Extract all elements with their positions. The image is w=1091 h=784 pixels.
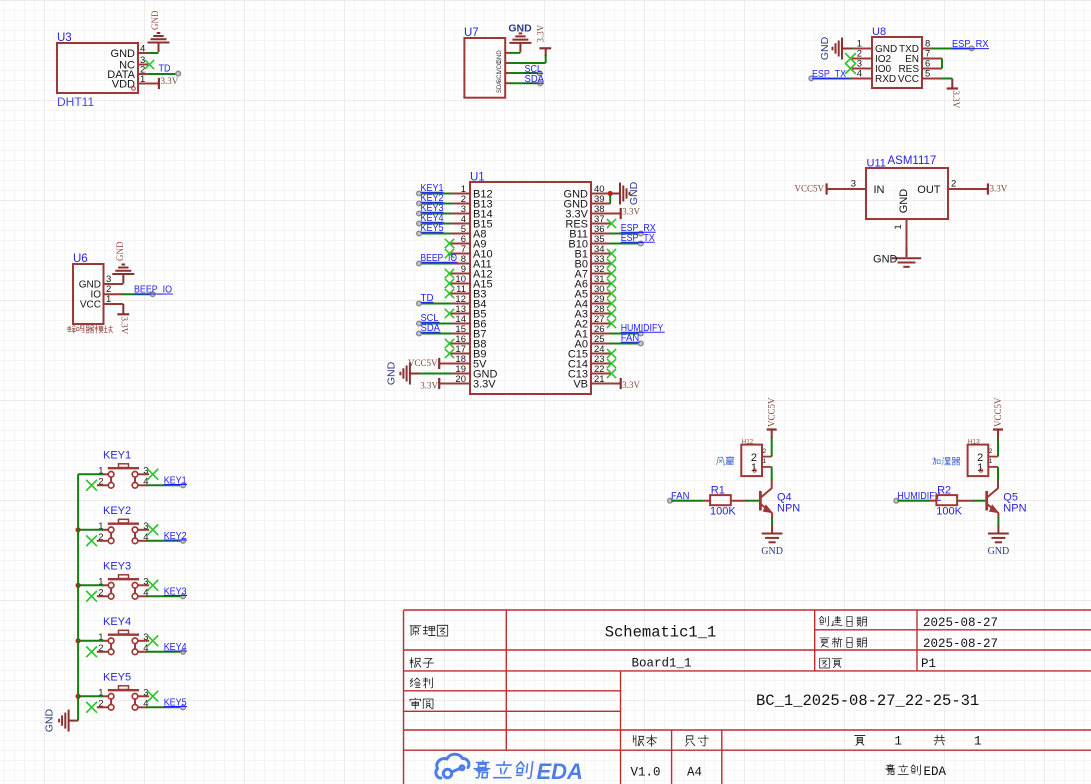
title: sheet type bbox=[410, 625, 448, 636]
U1 pin 6 stub bbox=[450, 243, 470, 245]
svg-text:GND: GND bbox=[898, 189, 910, 214]
wire KEY2 pin4 to label bbox=[147, 540, 182, 542]
switch KEY2 bbox=[97, 505, 149, 544]
U1 pin 24 stub bbox=[591, 353, 611, 355]
switch KEY3 bbox=[97, 560, 149, 599]
svg-text:IN: IN bbox=[874, 184, 885, 196]
U1 pin 23 stub bbox=[591, 363, 611, 365]
wire Q5 emitter to ground bbox=[997, 513, 999, 518]
net port KEY2 bbox=[417, 201, 422, 206]
net label TD bbox=[421, 293, 434, 304]
svg-text:OUT: OUT bbox=[917, 184, 941, 196]
wire U3 pin4 to GND bbox=[147, 52, 159, 54]
no-connect U1 pin 10 bbox=[445, 279, 454, 288]
U3 pin 3 stub bbox=[138, 64, 148, 66]
svg-text:GND: GND bbox=[150, 10, 160, 30]
U1 pin 30 stub bbox=[591, 293, 611, 295]
svg-text:3.3V: 3.3V bbox=[951, 91, 961, 109]
ground flag at U8 pin 1 (rotated left) bbox=[819, 36, 852, 60]
svg-text:3.3V: 3.3V bbox=[622, 380, 640, 390]
wire U3 DATA to TD bbox=[148, 73, 176, 75]
svg-text:RXD: RXD bbox=[875, 74, 896, 85]
U1 pin 28 stub bbox=[591, 313, 611, 315]
svg-text:EDA: EDA bbox=[537, 759, 583, 784]
wire U1 pin 12 to TD bbox=[421, 303, 451, 305]
no-connect U1 pin 27 bbox=[607, 319, 616, 328]
net label ESP_TX bbox=[812, 69, 849, 80]
power flag 3.3V at U1 pin 38 bbox=[610, 207, 641, 220]
title: drawn label bbox=[410, 678, 432, 688]
wire U1 pin 36 to ESP_RX bbox=[610, 233, 640, 235]
U11 pin 1 stub bbox=[906, 219, 908, 248]
logo JLCEDA cloud bbox=[436, 754, 469, 778]
wire U1 pin 3 to KEY3 bbox=[421, 213, 451, 215]
wire Q5 collector to H13 pin 1 bbox=[997, 480, 999, 489]
ground flag at key bus (rotated left) bbox=[44, 709, 79, 733]
net port KEY4 bbox=[417, 221, 422, 226]
U1 pin 21 stub bbox=[591, 383, 611, 385]
svg-text:U8: U8 bbox=[872, 26, 886, 38]
net label KEY4 bbox=[164, 642, 187, 653]
transistor Q4 NPN bbox=[760, 488, 800, 514]
junction key bus 2 bbox=[76, 527, 81, 532]
ground flag at U1 pin 40 (rotated right) bbox=[611, 181, 641, 205]
power flag VCC5V above H12 bbox=[767, 397, 777, 430]
wire KEY1 pin4 to label bbox=[147, 484, 182, 486]
U1 pin 17 stub bbox=[450, 353, 470, 355]
net port KEY5 bbox=[417, 231, 422, 236]
logo JLCEDA text bbox=[473, 761, 533, 778]
U1 pin 33 stub bbox=[591, 263, 611, 265]
svg-text:GND: GND bbox=[628, 181, 640, 205]
title: created date label bbox=[819, 616, 866, 626]
net label FAN bbox=[671, 491, 690, 502]
U11 pin 2 stub bbox=[948, 188, 988, 190]
svg-text:GND: GND bbox=[508, 23, 532, 35]
junction key bus 3 bbox=[76, 583, 81, 588]
svg-text:3.3V: 3.3V bbox=[536, 24, 546, 42]
no-connect U1 pin 9 bbox=[445, 269, 454, 278]
module U8 ESP8266 serial bbox=[857, 26, 931, 88]
no-connect U1 pin 23 bbox=[607, 359, 616, 368]
svg-text:3.3V: 3.3V bbox=[420, 381, 438, 391]
net port FAN bbox=[668, 498, 673, 503]
no-connect U3 pin 3 bbox=[145, 60, 154, 69]
wire U8 RXD to ESP_TX bbox=[814, 78, 853, 80]
sensor U3 DHT11 bbox=[57, 32, 145, 109]
junction key bus 5 bbox=[76, 694, 81, 699]
svg-text:3: 3 bbox=[851, 179, 856, 190]
U1 pin 14 stub bbox=[450, 323, 470, 325]
net label KEY2 bbox=[164, 531, 187, 542]
U7 pin 4 stub bbox=[505, 82, 510, 84]
wire H12 pin 2 to VCC5V bbox=[771, 438, 773, 457]
ground flag at U6 pin 3 bbox=[112, 241, 134, 283]
no-connect U1 pin 28 bbox=[607, 309, 616, 318]
title: company bbox=[886, 764, 921, 775]
U1 pin 31 stub bbox=[591, 283, 611, 285]
svg-text:Board1_1: Board1_1 bbox=[631, 657, 691, 671]
svg-text:NPN: NPN bbox=[777, 503, 800, 515]
wire key bus vertical bbox=[77, 474, 79, 720]
title: page 1 of 1 bbox=[855, 736, 865, 746]
svg-text:GND: GND bbox=[873, 254, 898, 266]
net port KEY2 bbox=[181, 538, 186, 543]
ground flag below Q4 bbox=[761, 533, 783, 557]
wire R2 to Q5 base bbox=[973, 500, 986, 502]
svg-text:DHT11: DHT11 bbox=[57, 95, 94, 109]
svg-text:GND: GND bbox=[761, 546, 783, 557]
U1 pin 19 stub bbox=[450, 373, 470, 375]
ground flag below Q5 bbox=[988, 533, 1010, 557]
svg-text:3.3V: 3.3V bbox=[473, 379, 496, 391]
power flag 3.3V at U3 VDD bbox=[159, 76, 179, 89]
wire U1 pin 14 to SCL bbox=[421, 323, 451, 325]
wire U1 pin 15 to SDA bbox=[421, 333, 451, 335]
net label SCL bbox=[525, 64, 544, 75]
svg-text:VCC5V: VCC5V bbox=[767, 397, 777, 427]
no-connect KEY4 pin 3 bbox=[147, 635, 158, 646]
wire U1 pin 19 to GND bbox=[419, 373, 451, 375]
net label KEY3 bbox=[164, 586, 187, 597]
net label BEEP_IO bbox=[421, 253, 458, 264]
svg-text:2: 2 bbox=[989, 448, 993, 455]
U8 pin 8 stub bbox=[922, 48, 932, 50]
U1 pin 39 stub bbox=[591, 203, 611, 205]
ground flag at U11 pin 1 bbox=[873, 254, 921, 267]
power flag VCC5V at U1 pin 18 bbox=[408, 358, 450, 369]
no-connect U1 pin 11 bbox=[445, 289, 454, 298]
svg-text:EDA: EDA bbox=[924, 765, 947, 779]
power flag VCC5V at U11 IN bbox=[794, 183, 826, 194]
no-connect U8 pin 3 bbox=[852, 68, 872, 70]
no-connect U1 pin 37 bbox=[607, 219, 616, 228]
power flag 3.3V at U6 VCC (down) bbox=[117, 304, 129, 335]
svg-text:VB: VB bbox=[573, 379, 588, 391]
U1 pin 32 stub bbox=[591, 273, 611, 275]
wire KEY4 pin1 to bus bbox=[78, 640, 103, 642]
net port TD bbox=[417, 301, 422, 306]
svg-text:KEY2: KEY2 bbox=[103, 505, 131, 517]
no-connect U1 pin 6 bbox=[445, 239, 454, 248]
svg-text:2: 2 bbox=[951, 179, 956, 190]
wire FAN to R1 bbox=[672, 500, 704, 502]
no-connect U1 pin 32 bbox=[607, 269, 616, 278]
resistor R2 100K bbox=[930, 485, 974, 518]
U7 pin 3 stub bbox=[505, 72, 510, 74]
net label ESP_TX bbox=[621, 233, 655, 244]
svg-text:VCC5V: VCC5V bbox=[794, 184, 824, 194]
U8 pin 1 stub bbox=[852, 48, 872, 50]
wire U1 pin 2 to KEY2 bbox=[421, 203, 451, 205]
no-connect U1 pin 34 bbox=[607, 249, 616, 258]
U1 pin 25 stub bbox=[591, 343, 611, 345]
wire H13 pin 2 to VCC5V bbox=[997, 438, 999, 457]
U1 pin 13 stub bbox=[450, 313, 470, 315]
resistor R1 100K bbox=[703, 485, 747, 518]
label 风扇 bbox=[717, 456, 734, 465]
header H13 bbox=[968, 439, 998, 477]
wire U8 VCC to 3.3V bbox=[941, 78, 952, 80]
title block frame bbox=[404, 610, 1091, 784]
wire KEY5 pin4 to label bbox=[147, 706, 182, 708]
net label SDA bbox=[421, 323, 441, 334]
net port TD bbox=[176, 71, 181, 76]
wire KEY3 pin4 to label bbox=[147, 595, 182, 597]
power flag VCC5V above H13 bbox=[993, 397, 1003, 430]
net label KEY1 bbox=[421, 183, 444, 194]
no-connect U1 pin 24 bbox=[607, 349, 616, 358]
module U7 (I2C display) bbox=[464, 27, 505, 98]
svg-text:1: 1 bbox=[893, 224, 904, 229]
wire EN-RES loop bbox=[941, 59, 943, 69]
no-connect U8 pin 2 bbox=[852, 58, 872, 60]
U3 pin 1 stub bbox=[138, 83, 158, 85]
U1 pin 35 stub bbox=[591, 243, 611, 245]
regulator U11 ASM1117 bbox=[866, 155, 948, 219]
U1 pin 12 stub bbox=[450, 303, 470, 305]
no-connect KEY1 pin 2 bbox=[86, 480, 97, 491]
wire U1 pin 35 to ESP_TX bbox=[610, 243, 640, 245]
U1 pin 7 stub bbox=[450, 253, 470, 255]
U8 pin 7 stub bbox=[922, 58, 942, 60]
net port ESP_RX bbox=[969, 46, 974, 51]
wire HUMIDIFY to R2 bbox=[898, 500, 930, 502]
net label ESP_RX bbox=[952, 39, 989, 50]
no-connect KEY3 pin 3 bbox=[147, 580, 158, 591]
svg-text:KEY4: KEY4 bbox=[103, 616, 131, 628]
svg-text:100K: 100K bbox=[936, 506, 962, 518]
U1 pin 11 stub bbox=[450, 293, 470, 295]
title: updated date label bbox=[820, 637, 867, 647]
U1 pin 36 stub bbox=[591, 233, 611, 235]
U6 pin 2 stub bbox=[104, 293, 124, 295]
svg-text:100K: 100K bbox=[710, 506, 736, 518]
svg-text:U6: U6 bbox=[73, 253, 88, 265]
net label KEY4 bbox=[421, 213, 444, 224]
U1 pin 37 stub bbox=[591, 223, 611, 225]
U3 pin 4 stub bbox=[138, 52, 148, 54]
net port SDA bbox=[417, 331, 422, 336]
U1 pin 26 stub bbox=[591, 333, 611, 335]
net port FAN bbox=[638, 341, 643, 346]
net port BEEP_IO bbox=[150, 292, 155, 297]
no-connect KEY2 pin 2 bbox=[86, 535, 97, 546]
net port HUMIDIFY bbox=[638, 331, 643, 336]
net port KEY1 bbox=[181, 483, 186, 488]
title: board label bbox=[410, 658, 434, 668]
wire U7 SDA bbox=[510, 82, 538, 84]
no-connect U1 pin 33 bbox=[607, 259, 616, 268]
net port HUMIDIFY bbox=[894, 498, 899, 503]
U1 pin names and numbers bbox=[455, 184, 604, 391]
svg-text:2025-08-27: 2025-08-27 bbox=[923, 616, 998, 630]
U8 pin 4 stub bbox=[852, 78, 872, 80]
svg-text:U3: U3 bbox=[57, 32, 72, 44]
wire U1 pin 26 to HUMIDIFY bbox=[610, 333, 640, 335]
power flag 3.3V at U11 OUT bbox=[988, 183, 1008, 194]
U1 pin 10 stub bbox=[450, 283, 470, 285]
svg-text:3.3V: 3.3V bbox=[120, 317, 130, 335]
U8 pin 5 stub bbox=[922, 78, 942, 80]
svg-text:V1.0: V1.0 bbox=[631, 766, 661, 780]
net port ESP_TX bbox=[809, 76, 814, 81]
title: page label bbox=[820, 658, 842, 668]
U1 pin 40 stub bbox=[591, 193, 611, 195]
U11 pin 3 stub bbox=[827, 188, 866, 190]
wire U8 TXD to ESP_RX bbox=[931, 48, 970, 50]
net port SDA bbox=[538, 81, 543, 86]
wire KEY5 pin1 to bus bbox=[78, 695, 103, 697]
wire U8 GND bbox=[848, 48, 853, 50]
svg-text:R2: R2 bbox=[937, 485, 951, 497]
net label HUMIDIFY bbox=[897, 491, 941, 502]
U3 pin 2 stub bbox=[138, 73, 148, 75]
MCU U1 bbox=[470, 172, 591, 395]
switch KEY4 bbox=[97, 616, 149, 655]
U1 pin 27 stub bbox=[591, 323, 611, 325]
U1 pin 15 stub bbox=[450, 333, 470, 335]
svg-text:1: 1 bbox=[894, 735, 902, 749]
ground flag at U7 pin 1 bbox=[508, 23, 532, 53]
U1 pin 1 stub bbox=[450, 193, 470, 195]
net port KEY1 bbox=[417, 191, 422, 196]
svg-text:3.3V: 3.3V bbox=[990, 184, 1008, 194]
svg-text:VCC: VCC bbox=[898, 74, 919, 85]
U7 pin 1 stub bbox=[505, 52, 510, 54]
transistor Q5 NPN bbox=[987, 488, 1027, 514]
net label FAN bbox=[621, 333, 640, 344]
wire KEY4 pin4 to label bbox=[147, 651, 182, 653]
svg-text:KEY3: KEY3 bbox=[103, 560, 131, 572]
U1 pin 38 stub bbox=[591, 213, 611, 215]
no-connect KEY4 pin 2 bbox=[86, 646, 97, 657]
net port KEY3 bbox=[181, 594, 186, 599]
net label KEY2 bbox=[421, 193, 444, 204]
net label HUMIDIFY bbox=[621, 323, 665, 334]
svg-text:NPN: NPN bbox=[1003, 503, 1026, 515]
power flag 3.3V at U8 VCC (rotated) bbox=[947, 89, 961, 109]
power flag 3.3V at U7 VCC bbox=[536, 24, 552, 48]
svg-text:U7: U7 bbox=[464, 27, 479, 39]
power flag 3.3V at U1 pin 21 bbox=[610, 378, 641, 390]
no-connect KEY1 pin 3 bbox=[147, 469, 158, 480]
title: reviewed label bbox=[410, 698, 433, 709]
wire U7 SCL bbox=[510, 72, 538, 74]
net label SCL bbox=[421, 313, 440, 324]
wire U6 IO to BEEP_IO bbox=[123, 293, 151, 295]
U1 pin 22 stub bbox=[591, 373, 611, 375]
net port SCL bbox=[537, 71, 542, 76]
ground flag at U1 pin 19 (rotated left) bbox=[386, 361, 420, 385]
net port ESP_TX bbox=[638, 241, 643, 246]
wire KEY1 pin1 to bus bbox=[78, 473, 103, 475]
U1 pin 20 stub bbox=[450, 383, 470, 385]
no-connect U1 pin 22 bbox=[607, 369, 616, 378]
junction U1 pins 40/39 bbox=[608, 191, 613, 196]
title: version label bbox=[633, 735, 656, 746]
svg-text:A4: A4 bbox=[687, 766, 702, 780]
svg-text:1: 1 bbox=[974, 735, 982, 749]
svg-text:VCC: VCC bbox=[80, 300, 101, 311]
net label SDA bbox=[525, 74, 545, 85]
svg-text:U1: U1 bbox=[470, 172, 485, 184]
wire Q4 emitter to ground bbox=[771, 513, 773, 518]
no-connect U1 pin 31 bbox=[607, 279, 616, 288]
net port KEY5 bbox=[181, 705, 186, 710]
svg-text:3.3V: 3.3V bbox=[622, 207, 640, 217]
svg-text:GND: GND bbox=[386, 361, 398, 385]
wire KEY3 pin1 to bus bbox=[78, 584, 103, 586]
U1 pin 18 stub bbox=[450, 363, 470, 365]
svg-text:SDA: SDA bbox=[497, 81, 503, 93]
junction key bus 4 bbox=[76, 638, 81, 643]
U1 pin 8 stub bbox=[450, 263, 470, 265]
switch KEY1 bbox=[97, 449, 149, 488]
svg-text:VCC5V: VCC5V bbox=[408, 358, 438, 368]
U7 pin 2 stub bbox=[505, 62, 510, 64]
module U6 buzzer bbox=[68, 253, 113, 333]
U1 pin 9 stub bbox=[450, 273, 470, 275]
U1 pin 16 stub bbox=[450, 343, 470, 345]
U1 pin 2 stub bbox=[450, 203, 470, 205]
svg-text:GND: GND bbox=[111, 48, 136, 60]
svg-text:ASM1117: ASM1117 bbox=[888, 155, 937, 167]
wire Q4 collector to H12 pin 1 bbox=[771, 480, 773, 489]
svg-text:H12: H12 bbox=[742, 439, 754, 446]
U1 pin 29 stub bbox=[591, 303, 611, 305]
U8 pin 6 stub bbox=[922, 68, 942, 70]
net label BEEP_IO bbox=[134, 285, 173, 296]
no-connect KEY3 pin 2 bbox=[86, 591, 97, 602]
svg-text:1: 1 bbox=[989, 458, 993, 465]
no-connect KEY5 pin 3 bbox=[147, 691, 158, 702]
svg-text:1: 1 bbox=[763, 458, 767, 465]
svg-text:KEY1: KEY1 bbox=[103, 449, 131, 461]
wire U1 pin 25 to FAN bbox=[610, 343, 640, 345]
no-connect U1 pin 7 bbox=[445, 249, 454, 258]
wire U7 VCC to 3.3V bbox=[510, 62, 546, 64]
no-connect U1 pin 13 bbox=[445, 309, 454, 318]
svg-text:KEY5: KEY5 bbox=[103, 671, 131, 683]
U1 pin 34 stub bbox=[591, 253, 611, 255]
no-connect U1 pin 30 bbox=[607, 289, 616, 298]
net label ESP_RX bbox=[621, 223, 656, 234]
net port KEY4 bbox=[181, 649, 186, 654]
svg-text:GND: GND bbox=[115, 241, 125, 261]
svg-text:P1: P1 bbox=[921, 657, 936, 671]
svg-text:2: 2 bbox=[763, 448, 767, 455]
no-connect KEY2 pin 3 bbox=[147, 524, 158, 535]
wire U11 GND bbox=[906, 247, 908, 257]
svg-text:GND: GND bbox=[988, 546, 1010, 557]
ground flag at U3 pin 4 bbox=[148, 10, 170, 52]
svg-text:Schematic1_1: Schematic1_1 bbox=[605, 624, 717, 642]
svg-text:GND: GND bbox=[819, 36, 831, 60]
svg-text:H13: H13 bbox=[968, 439, 980, 446]
label 加湿器 bbox=[933, 457, 960, 464]
U6 pin 3 stub bbox=[104, 283, 124, 285]
wire U1 pin 1 to KEY1 bbox=[421, 193, 451, 195]
wire R1 to Q4 base bbox=[747, 500, 760, 502]
wire U1 pin 8 to BEEP_IO bbox=[421, 263, 451, 265]
svg-text:TD: TD bbox=[159, 64, 171, 75]
header H12 bbox=[741, 439, 771, 477]
wire U1 pin 4 to KEY4 bbox=[421, 223, 451, 225]
U1 pin 3 stub bbox=[450, 213, 470, 215]
wire U1 pin 5 to KEY5 bbox=[421, 233, 451, 235]
svg-text:VCC5V: VCC5V bbox=[993, 397, 1003, 427]
